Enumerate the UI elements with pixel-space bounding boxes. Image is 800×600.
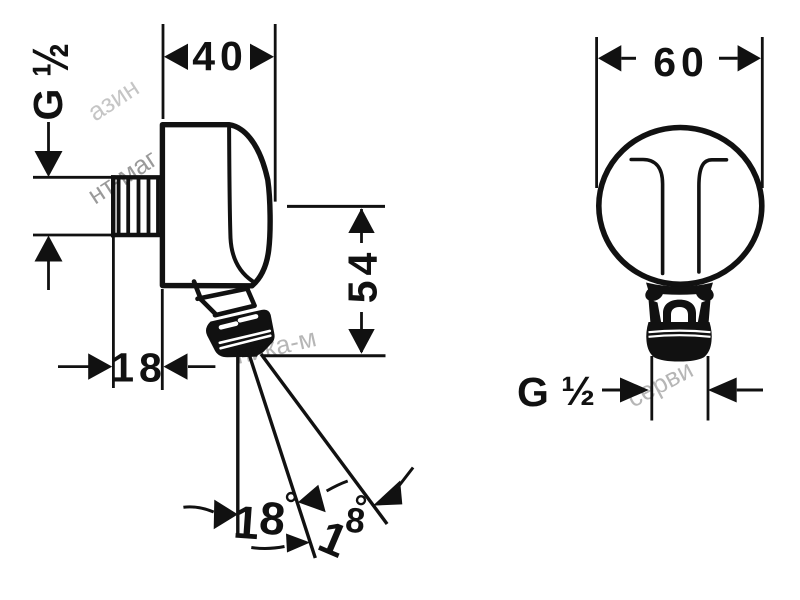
connector under-circle band bbox=[646, 283, 713, 295]
spray line B 36deg bbox=[261, 354, 387, 524]
connector left side band bbox=[649, 299, 662, 324]
dim 54 bottom ref line bbox=[262, 354, 386, 357]
nut front white stripe 2 bbox=[649, 335, 711, 337]
dim 60 left tail bbox=[621, 57, 636, 60]
dim 18 right tail bbox=[188, 365, 215, 368]
body outline bbox=[162, 125, 270, 286]
dim 54 line upper bbox=[360, 209, 363, 243]
dim 60 left arrow bbox=[598, 45, 621, 71]
angle dim1 degree bbox=[287, 493, 295, 501]
svg-text:G: G bbox=[517, 369, 554, 415]
angle dim1 left tail bbox=[183, 507, 213, 512]
nozzle nut (side view) bbox=[207, 311, 274, 357]
G 1/2 ext line left below nut bbox=[650, 356, 653, 421]
connector arch bbox=[663, 300, 696, 322]
connector left lobe bbox=[643, 283, 666, 304]
dim 18 left arrow bbox=[88, 353, 112, 379]
pipe thread hatch bbox=[119, 177, 158, 235]
nut front white stripe 1 bbox=[649, 331, 711, 333]
svg-text:8: 8 bbox=[343, 500, 371, 541]
svg-text:½: ½ bbox=[22, 38, 79, 77]
G 1/2 dim leader left bbox=[602, 389, 620, 392]
dim 18 left tail bbox=[58, 365, 89, 368]
waterway right curve bbox=[699, 160, 727, 272]
body inner contour bbox=[229, 128, 252, 281]
nut white stripe 2 bbox=[221, 336, 271, 349]
dim 18 right arrow bbox=[164, 353, 188, 379]
dim 60 right arrow bbox=[738, 45, 761, 71]
G 1/2 left dim line upper stem bbox=[47, 122, 50, 152]
dim 60 left ext line bbox=[595, 37, 598, 188]
nut bottom tip bbox=[236, 347, 263, 358]
angle dim1 right tail bbox=[327, 481, 348, 491]
G 1/2 left down arrow bbox=[35, 151, 63, 177]
spray line A 18deg bbox=[249, 354, 315, 558]
angle dim1 right arrow bbox=[298, 485, 326, 513]
angle dim2 left arrow bbox=[286, 534, 310, 553]
watermark pieces bbox=[82, 72, 698, 413]
pipe left cap bbox=[111, 175, 115, 237]
ref line pipe bottom bbox=[33, 234, 111, 237]
dim 60 right tail bbox=[719, 57, 738, 60]
G 1/2 left lower stem bbox=[47, 260, 50, 290]
svg-text:18: 18 bbox=[111, 345, 167, 391]
threaded pipe outline bbox=[111, 175, 160, 179]
G 1/2 dim tail right bbox=[737, 389, 763, 392]
dim 18 left ext line bbox=[112, 237, 115, 388]
dim 60 right ext line bbox=[761, 37, 764, 188]
dim 40 right extension line bbox=[274, 24, 277, 202]
ref line pipe top bbox=[33, 176, 111, 179]
angle dim2 right arrow bbox=[373, 481, 402, 506]
dim 40 right arrow bbox=[250, 44, 274, 70]
dim 54 up arrow bbox=[348, 208, 374, 233]
G 1/2 left arrow (pointing right) bbox=[620, 378, 649, 403]
svg-text:54: 54 bbox=[339, 248, 385, 304]
dim 40 left extension line bbox=[162, 24, 165, 119]
dim 54 top ref line bbox=[287, 205, 385, 208]
dim 18 right ext line bbox=[161, 289, 164, 390]
G 1/2 ext line right below nut bbox=[707, 356, 710, 421]
svg-text:60: 60 bbox=[653, 39, 709, 85]
waterway left curve bbox=[631, 160, 662, 274]
connector right lobe bbox=[693, 283, 716, 304]
nut white stripe 1 bbox=[220, 331, 270, 343]
escutcheon circle bbox=[599, 127, 762, 284]
angle dim1 left arrow bbox=[214, 500, 238, 530]
spray vertical line bbox=[236, 357, 239, 536]
svg-text:G: G bbox=[25, 84, 71, 121]
connector right side band bbox=[698, 299, 711, 324]
nozzle neck lines bbox=[194, 282, 255, 316]
angle dim2 left tail bbox=[251, 547, 284, 549]
dim 40 left arrow bbox=[164, 44, 188, 70]
nut white slit upper-left bbox=[221, 324, 236, 328]
svg-text:½: ½ bbox=[561, 368, 600, 414]
dim 54 down arrow bbox=[348, 329, 374, 354]
G 1/2 left up arrow bbox=[35, 236, 63, 262]
svg-text:40: 40 bbox=[192, 33, 248, 79]
dim 54 line lower bbox=[360, 312, 363, 352]
angle dim2 right tail bbox=[395, 468, 413, 492]
nut white slit upper-right bbox=[240, 316, 256, 320]
angle dim2 degree bbox=[357, 496, 365, 504]
hose nut front bbox=[646, 322, 712, 362]
G 1/2 right arrow (pointing left) bbox=[708, 378, 737, 403]
